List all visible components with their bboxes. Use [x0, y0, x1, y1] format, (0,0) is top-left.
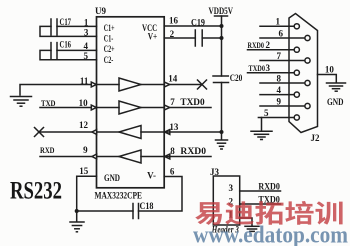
arrow pin 12 [92, 130, 97, 135]
svg-text:www.edatop.com: www.edatop.com [193, 223, 348, 246]
svg-text:RXD0: RXD0 [180, 146, 206, 156]
svg-text:V+: V+ [148, 32, 158, 42]
wire : TXD pin 10 [40, 107, 97, 109]
wire : pin 15 to ground [77, 176, 97, 221]
svg-text:RXD: RXD [40, 146, 55, 155]
junction dot C19 [220, 36, 224, 40]
svg-text:1: 1 [84, 17, 89, 27]
svg-text:RXD0: RXD0 [258, 182, 280, 192]
svg-text:12: 12 [79, 120, 89, 130]
arrow pin 9 [92, 154, 97, 159]
junction dot pin 16 [220, 24, 224, 28]
op-amp U1 : IC body U9 MAX3232 [97, 17, 165, 188]
svg-text:V-: V- [147, 171, 156, 181]
svg-text:VDD5V: VDD5V [209, 6, 234, 16]
svg-text:C2+: C2+ [104, 44, 115, 54]
wire : pin 5 row [40, 50, 97, 59]
svg-text:C1-: C1- [104, 34, 114, 44]
ground on VDD rail [216, 140, 228, 149]
no-connect X on pin 12 [35, 128, 44, 137]
svg-text:1: 1 [276, 17, 281, 27]
svg-text:14: 14 [168, 74, 178, 84]
svg-text:2: 2 [266, 40, 271, 50]
capacitor C16 [51, 43, 57, 59]
svg-text:RXD0: RXD0 [248, 41, 265, 50]
svg-text:C1+: C1+ [104, 23, 115, 33]
svg-text:10: 10 [79, 98, 89, 108]
arrow pin 13 [165, 130, 170, 135]
svg-text:C20: C20 [230, 73, 243, 83]
wire : pin 1 row [57, 25, 97, 27]
ground at J3 pin 1 [245, 226, 259, 231]
wire : ground junction to C18 [77, 210, 133, 212]
wire : pin 13 to ground junction [165, 131, 222, 133]
ground under chip [70, 222, 84, 232]
svg-text:11: 11 [80, 76, 89, 86]
ground at pin 11 [11, 97, 32, 107]
buffer T4 [119, 150, 141, 163]
buffer T1 [119, 78, 141, 91]
wire : pin 12 row [39, 131, 97, 133]
svg-text:3: 3 [229, 183, 234, 193]
svg-text:13: 13 [169, 122, 179, 132]
svg-text:RS232: RS232 [10, 177, 62, 204]
svg-text:6: 6 [279, 28, 284, 38]
svg-text:10: 10 [325, 65, 335, 75]
DB9 pin 9 [260, 105, 305, 107]
svg-text:8: 8 [277, 73, 282, 83]
wire : pin 16 to VDD rail [164, 25, 221, 27]
svg-text:4: 4 [277, 85, 282, 95]
svg-text:C16: C16 [60, 40, 72, 50]
wire : C19 to VDD rail [202, 37, 221, 39]
svg-text:TXD: TXD [41, 99, 56, 108]
wire : inner row 4 [97, 156, 120, 158]
svg-text:C18: C18 [140, 201, 154, 211]
wire : J3 pin 1 to ground [240, 218, 252, 226]
wire : J3 pin 2 TXD0 [240, 203, 281, 205]
wire : C18 to pin 6 V- [139, 177, 183, 212]
capacitor C17 [51, 19, 57, 35]
wire : pin 14 row to X [170, 84, 202, 86]
svg-text:9: 9 [83, 145, 88, 155]
svg-text:7: 7 [277, 51, 282, 61]
wire : inner row 2 [97, 107, 120, 109]
DB9 pin 8 [260, 82, 305, 84]
svg-text:TXD0: TXD0 [180, 97, 205, 107]
wire : DB9 pin 10 to GND [318, 75, 337, 83]
wire : C20 to ground junction [221, 83, 223, 140]
ground at DB9 pin 10 [327, 83, 346, 91]
svg-text:C17: C17 [60, 17, 72, 27]
DB9 pin 4 [260, 94, 294, 96]
wire : inner row 1 [97, 84, 120, 86]
svg-text:6: 6 [170, 166, 175, 176]
svg-text:3: 3 [84, 27, 89, 37]
DB9 pin 2 RXD0 [248, 49, 295, 51]
junction dot pin 15 ground [75, 209, 79, 213]
svg-text:9: 9 [277, 96, 282, 106]
svg-text:GND: GND [327, 97, 344, 107]
wire : RXD pin 9 [40, 156, 97, 158]
wire : TXD0 pin 7 [170, 107, 211, 109]
svg-text:MAX3232CPE: MAX3232CPE [95, 191, 143, 201]
svg-text:TXD0: TXD0 [249, 64, 266, 73]
wire : J3 pin 3 RXD0 [240, 190, 281, 192]
DB9 pin 1 [260, 25, 294, 27]
watermark chinese 易迪拓培训 [195, 201, 342, 225]
capacitor C20 [213, 76, 229, 83]
wire : RXD0 pin 8 [165, 156, 211, 158]
capacitor C19 [195, 30, 202, 46]
connector J3 box [213, 176, 239, 225]
svg-text:5: 5 [84, 51, 89, 61]
DB9 pin 6 [260, 37, 305, 39]
svg-text:16: 16 [169, 16, 179, 26]
ground at DB9 pin 5 [251, 131, 272, 139]
no-connect X on pin 14 [198, 80, 207, 89]
buffer T3 [119, 126, 141, 139]
connector J2 DB9 body [289, 14, 318, 133]
DB9 pin 3 TXD0 [248, 72, 295, 74]
wire : inner row 3 [97, 131, 120, 133]
svg-text:3: 3 [266, 63, 271, 73]
svg-text:2: 2 [170, 29, 175, 39]
arrow pin 10 [91, 105, 96, 110]
svg-text:C19: C19 [191, 18, 205, 28]
junction dot pin 13 [220, 130, 224, 134]
svg-text:GND: GND [104, 173, 120, 183]
svg-text:5: 5 [264, 108, 269, 118]
arrow pin 8 [165, 154, 170, 159]
wire : DB9 pin 5 to ground [261, 118, 263, 131]
arrow pin 14 [164, 82, 169, 87]
power symbol VDD5V [215, 16, 228, 26]
svg-text:J2: J2 [311, 133, 321, 143]
arrow pin 7 [164, 105, 169, 110]
svg-text:U9: U9 [95, 6, 106, 16]
wire : pin 4 row [57, 49, 97, 51]
svg-text:C2-: C2- [104, 55, 114, 65]
wire : pin 3 row [40, 26, 97, 36]
svg-text:7: 7 [170, 97, 175, 107]
svg-text:J3: J3 [210, 167, 220, 177]
wire : VDD rail down to C20 [221, 26, 223, 76]
DB9 pin 7 [260, 60, 305, 62]
svg-text:8: 8 [170, 146, 175, 156]
arrow pin 11 [91, 82, 96, 87]
wire : pin 11 to ground [20, 85, 97, 96]
wire : pin 2 to C19 [164, 37, 195, 39]
capacitor C18 [133, 204, 139, 219]
buffer T2 [119, 101, 141, 114]
svg-text:15: 15 [79, 166, 89, 176]
DB9 pin 5 [258, 117, 294, 119]
svg-text:4: 4 [84, 41, 89, 51]
